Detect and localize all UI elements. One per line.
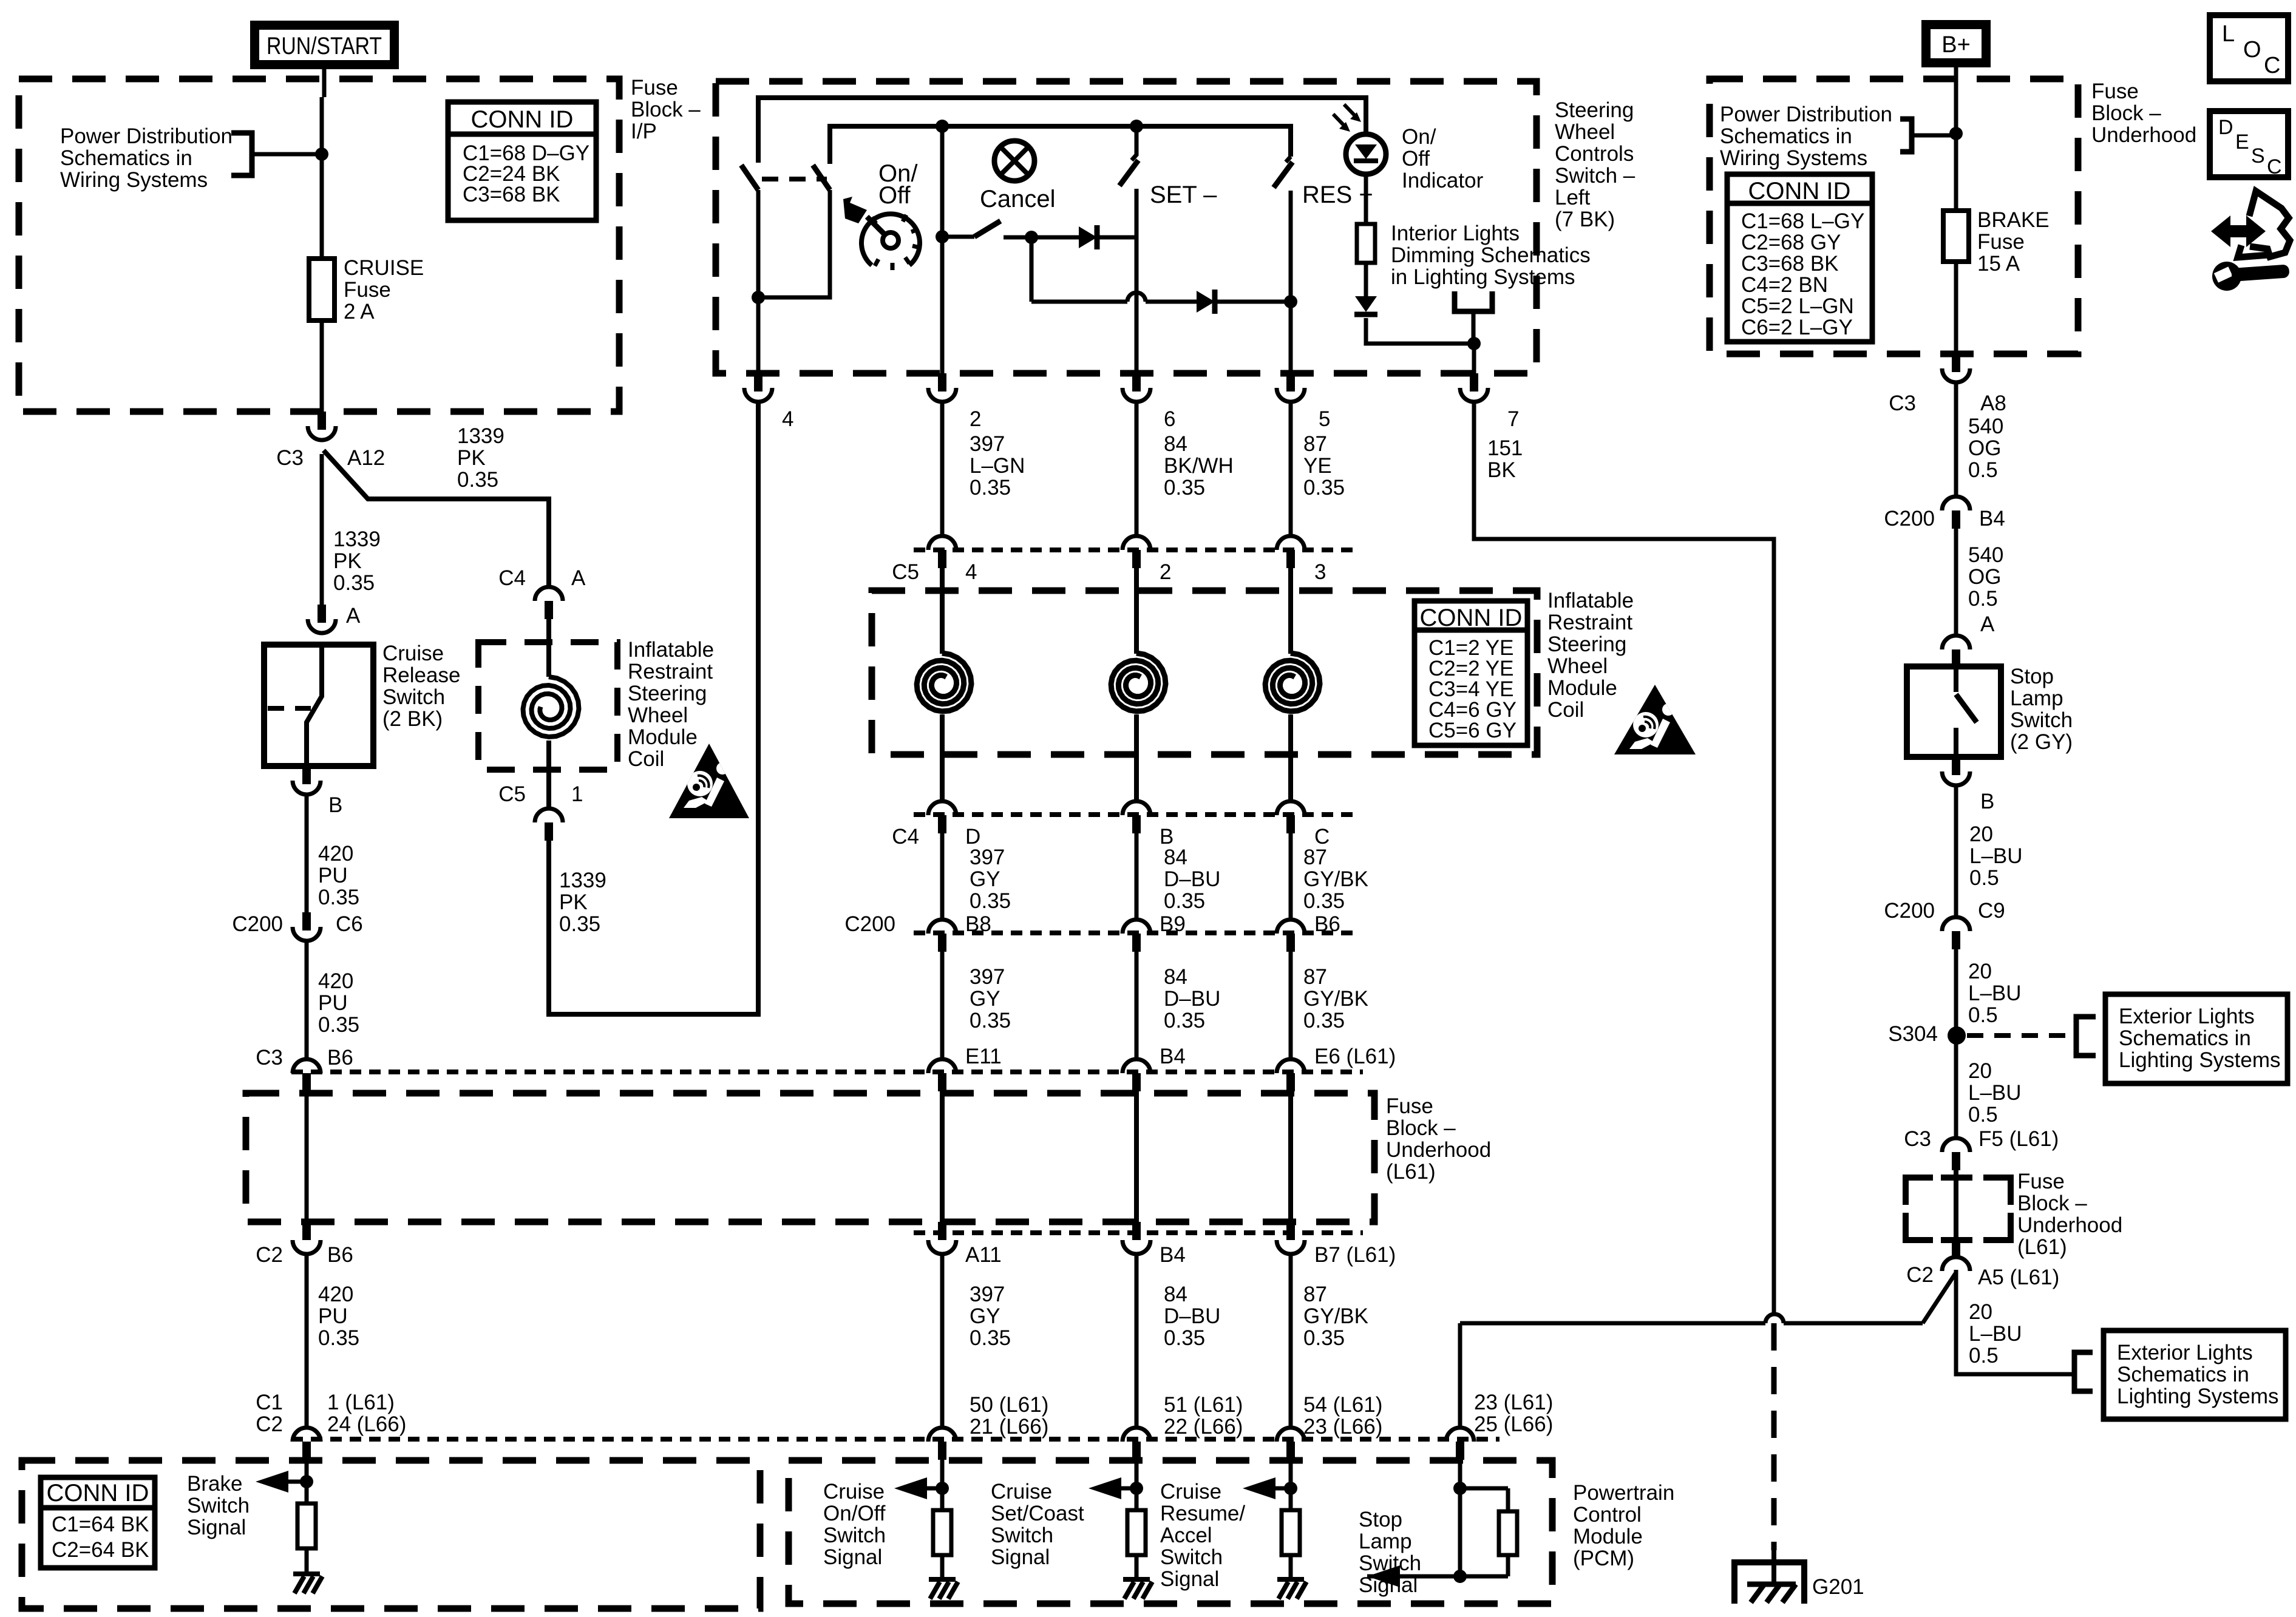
svg-text:0.35: 0.35: [970, 1009, 1011, 1032]
svg-text:24 (L66): 24 (L66): [327, 1412, 406, 1436]
CONN ID table underhood right: [1727, 174, 1872, 342]
wire C6 to C3 B6: [305, 943, 309, 1059]
svg-text:Coil: Coil: [1547, 698, 1584, 722]
svg-text:Module: Module: [1547, 676, 1617, 700]
svg-text:YE: YE: [1303, 454, 1332, 478]
svg-text:54 (L61): 54 (L61): [1303, 1393, 1382, 1417]
svg-text:87: 87: [1303, 1283, 1327, 1306]
svg-text:F5 (L61): F5 (L61): [1978, 1127, 2059, 1151]
brake pedal dashed box: [22, 1460, 760, 1609]
arrow stop lamp signal: [1367, 1565, 1400, 1587]
power label RUN/START: [250, 21, 399, 69]
svg-text:0.5: 0.5: [1968, 1103, 1998, 1127]
svg-text:Lamp: Lamp: [2010, 686, 2063, 710]
svg-text:D: D: [2218, 116, 2233, 139]
svg-text:GY: GY: [970, 987, 1000, 1011]
wire into coil box: [546, 619, 551, 677]
wire coil left out: [940, 714, 945, 801]
svg-text:Fuse: Fuse: [2091, 80, 2139, 103]
LED arrows: [1333, 114, 1347, 129]
svg-text:C3: C3: [1889, 392, 1916, 415]
svg-text:6: 6: [1164, 407, 1175, 431]
ground pcm branch: [940, 1555, 945, 1579]
wires C200 to E11 row: [940, 952, 945, 1059]
junction dot power feed: [315, 147, 328, 161]
stop lamp switch blade: [1954, 668, 1958, 692]
connector C2 A5 L61: [1952, 1243, 1960, 1259]
junction dot res wire: [1284, 295, 1297, 308]
svg-text:B6: B6: [327, 1243, 353, 1267]
svg-text:C2=68 GY: C2=68 GY: [1741, 231, 1841, 254]
svg-text:Interior Lights: Interior Lights: [1391, 222, 1520, 245]
svg-text:20: 20: [1968, 1059, 1992, 1083]
svg-text:On/Off: On/Off: [823, 1502, 886, 1525]
coil dashed box inflatable restraint steering wheel module coil: [478, 642, 617, 770]
wire 1339 down to cruise release switch: [320, 454, 324, 605]
svg-text:C2: C2: [1906, 1263, 1934, 1287]
svg-text:Accel: Accel: [1160, 1524, 1212, 1547]
wire 2 from rail: [936, 120, 949, 133]
wire resistor to diode: [1364, 263, 1368, 296]
icon mouse outline: [2249, 191, 2290, 257]
svg-text:B8: B8: [965, 912, 991, 936]
svg-text:(PCM): (PCM): [1573, 1547, 1634, 1570]
svg-text:0.35: 0.35: [318, 886, 359, 909]
fuse block underhood right dashed box: [1710, 79, 2078, 354]
svg-text:Coil: Coil: [628, 747, 664, 771]
svg-text:0.5: 0.5: [1968, 1003, 1998, 1027]
connector C5 4: [928, 536, 956, 550]
svg-text:Steering: Steering: [1555, 98, 1634, 122]
svg-text:CONN ID: CONN ID: [47, 1480, 149, 1507]
svg-text:Controls: Controls: [1555, 142, 1634, 166]
connector pin 2: [938, 373, 946, 392]
svg-text:3: 3: [1314, 560, 1326, 584]
svg-text:A: A: [1980, 612, 1995, 636]
svg-text:GY: GY: [970, 1304, 1000, 1328]
CONN ID table brake: [41, 1477, 155, 1568]
wire pin2 to C5: [940, 403, 945, 536]
svg-text:0.35: 0.35: [1164, 1326, 1205, 1350]
resistor brake branch: [305, 1482, 309, 1503]
svg-text:(L61): (L61): [2017, 1235, 2067, 1259]
junction dot cancel tap: [936, 230, 949, 243]
svg-text:Block –: Block –: [2091, 101, 2161, 125]
wire resistor to ground: [305, 1547, 309, 1574]
svg-text:Block –: Block –: [1386, 1116, 1456, 1140]
svg-text:Restraint: Restraint: [1547, 611, 1632, 634]
wire on-off to pin 4: [756, 297, 761, 373]
resistor pcm branch: [1289, 1488, 1293, 1510]
svg-text:51 (L61): 51 (L61): [1164, 1393, 1243, 1417]
svg-text:B+: B+: [1941, 32, 1971, 58]
svg-text:Switch: Switch: [187, 1494, 250, 1517]
ground brake branch: [293, 1571, 320, 1576]
wire resume branch with hop: [1031, 300, 1127, 304]
arrow pcm branch: [1243, 1477, 1275, 1499]
svg-text:G201: G201: [1812, 1575, 1864, 1599]
connector C5 3: [1277, 536, 1305, 550]
svg-text:L: L: [2222, 21, 2235, 47]
svg-text:Schematics in: Schematics in: [1720, 124, 1852, 148]
resistor pcm branch: [940, 1488, 945, 1510]
svg-text:Off: Off: [878, 182, 911, 209]
svg-text:(2 BK): (2 BK): [382, 707, 443, 731]
resistor stop lamp branch: [1499, 1511, 1517, 1555]
svg-text:Power Distribution: Power Distribution: [1720, 103, 1892, 126]
connector C3 A12: [318, 412, 326, 430]
svg-text:Cruise: Cruise: [382, 642, 444, 665]
icon wrench: [2212, 262, 2241, 291]
coil right: [1265, 653, 1320, 711]
coil steering wheel module: [523, 677, 579, 737]
svg-text:1: 1: [571, 782, 583, 806]
icon mouse arrow: [2211, 215, 2266, 247]
svg-text:0.5: 0.5: [1968, 587, 1998, 611]
rail common to switches: [830, 126, 1291, 164]
svg-text:0.35: 0.35: [1164, 1009, 1205, 1032]
svg-text:Module: Module: [1573, 1525, 1643, 1548]
svg-text:B6: B6: [1314, 912, 1340, 936]
LED on off indicator: [1346, 134, 1386, 174]
svg-text:Stop: Stop: [1359, 1508, 1402, 1531]
wire coil middle out: [1134, 714, 1139, 801]
svg-text:Lamp: Lamp: [1359, 1530, 1412, 1553]
svg-text:22 (L66): 22 (L66): [1164, 1415, 1243, 1439]
power label B+: [1921, 20, 1991, 67]
coil box dashed three coils: [872, 591, 1537, 754]
wires A11 row to PCM row: [940, 1254, 945, 1428]
svg-text:0.35: 0.35: [318, 1013, 359, 1037]
connector C2 B6: [302, 1222, 311, 1240]
svg-text:Restraint: Restraint: [628, 660, 713, 683]
arrow brake switch signal: [256, 1471, 288, 1493]
wire coil feed to steering switch pin 4: [549, 401, 758, 1014]
svg-text:2: 2: [1160, 560, 1171, 584]
svg-text:Wheel: Wheel: [628, 703, 688, 727]
resistor pcm branch: [1135, 1488, 1139, 1510]
arrow to gauge icon: [843, 197, 867, 223]
svg-text:0.5: 0.5: [1969, 1344, 1999, 1368]
svg-text:Switch: Switch: [382, 685, 445, 709]
svg-text:B: B: [1980, 790, 1994, 813]
svg-text:C4=2 BN: C4=2 BN: [1741, 273, 1828, 297]
connector pin 6: [1132, 373, 1141, 392]
powertrain control module dashed box: [789, 1460, 1552, 1604]
connector B7 L61: [1286, 1222, 1295, 1240]
svg-text:(L61): (L61): [1386, 1160, 1436, 1184]
svg-text:0.35: 0.35: [970, 476, 1011, 500]
connector PCM resume accel: [1277, 1428, 1305, 1442]
wire stop lamp from run: [1458, 1323, 1462, 1428]
fuse block underhood L61 corner box: [1906, 1178, 1933, 1205]
svg-text:B4: B4: [1160, 1243, 1186, 1267]
connector E11: [928, 1059, 956, 1073]
coil middle: [1111, 653, 1166, 711]
wire bracket to B+ wire: [1912, 134, 1956, 138]
svg-text:87: 87: [1303, 432, 1327, 456]
svg-text:Stop: Stop: [2010, 665, 2054, 688]
bracket power distribution right: [1900, 119, 1912, 152]
svg-text:Off: Off: [1402, 147, 1430, 171]
wire diagonal to C2 A5: [1923, 1273, 1955, 1323]
svg-text:0.35: 0.35: [318, 1326, 359, 1350]
svg-text:C5=2 L–GN: C5=2 L–GN: [1741, 294, 1854, 318]
connector B4 lower: [1132, 1222, 1141, 1240]
svg-text:GY/BK: GY/BK: [1303, 987, 1368, 1011]
cancel switch blade: [942, 235, 974, 239]
connector A11: [938, 1222, 946, 1240]
svg-text:C: C: [2264, 53, 2280, 78]
svg-text:0.35: 0.35: [1164, 889, 1205, 913]
connector pin 4: [754, 373, 763, 392]
svg-text:Powertrain: Powertrain: [1573, 1481, 1674, 1505]
svg-text:Schematics in: Schematics in: [2117, 1363, 2249, 1386]
svg-text:23 (L66): 23 (L66): [1303, 1415, 1382, 1439]
svg-text:D–BU: D–BU: [1164, 1304, 1220, 1328]
fuse block underhood dashed box: [246, 1093, 1374, 1222]
svg-text:OG: OG: [1968, 565, 2001, 589]
junction dot pcm branch: [936, 1482, 949, 1495]
svg-text:Exterior Lights: Exterior Lights: [2119, 1005, 2255, 1028]
svg-text:0.5: 0.5: [1969, 866, 1999, 890]
wires C4 to C200: [940, 833, 945, 921]
svg-text:BK: BK: [1487, 458, 1516, 482]
svg-text:87: 87: [1303, 846, 1327, 869]
svg-text:B4: B4: [1160, 1045, 1186, 1068]
svg-text:Schematics in: Schematics in: [2119, 1026, 2251, 1050]
connector C4 C: [1277, 801, 1305, 815]
svg-text:Wiring Systems: Wiring Systems: [60, 168, 208, 192]
svg-text:A: A: [346, 604, 361, 628]
wire C9 to S304: [1954, 949, 1958, 1138]
svg-text:PK: PK: [559, 890, 588, 914]
hop over ground wire: [1765, 1314, 1784, 1323]
svg-text:1 (L61): 1 (L61): [327, 1391, 395, 1414]
connector row line C4: [914, 812, 1354, 817]
svg-text:Signal: Signal: [1160, 1567, 1219, 1591]
svg-text:C5: C5: [498, 782, 526, 806]
svg-text:Cruise: Cruise: [1160, 1480, 1221, 1503]
svg-text:C3: C3: [276, 446, 304, 470]
svg-text:RES +: RES +: [1302, 181, 1373, 208]
svg-text:Fuse: Fuse: [1977, 230, 2025, 254]
svg-text:PU: PU: [318, 991, 348, 1015]
connector C200 C9: [1942, 917, 1970, 931]
svg-text:Fuse: Fuse: [344, 278, 391, 302]
svg-text:7: 7: [1507, 407, 1519, 431]
svg-text:C200: C200: [844, 912, 895, 936]
connector row line C5: [914, 547, 1354, 552]
box Exterior Lights upper: [2105, 994, 2288, 1083]
connector C200 B8: [928, 920, 956, 934]
junction dot B+ power note: [1949, 127, 1963, 140]
svg-text:B4: B4: [1979, 507, 2005, 531]
svg-text:Switch: Switch: [991, 1524, 1053, 1547]
svg-text:PK: PK: [457, 446, 486, 470]
svg-text:CRUISE: CRUISE: [344, 256, 424, 280]
svg-text:C2: C2: [256, 1412, 283, 1436]
lamp cancel: [994, 141, 1034, 181]
svg-text:(2 GY): (2 GY): [2010, 730, 2073, 754]
svg-text:Switch: Switch: [2010, 708, 2073, 732]
svg-text:BRAKE: BRAKE: [1977, 208, 2050, 232]
svg-text:Switch: Switch: [823, 1524, 886, 1547]
junction dot stop lamp bottom: [1453, 1570, 1467, 1583]
connector row line PCM and brake: [291, 1437, 1500, 1442]
svg-text:Underhood: Underhood: [2017, 1213, 2122, 1237]
svg-text:E11: E11: [965, 1045, 1002, 1068]
svg-text:C3=68 BK: C3=68 BK: [463, 183, 560, 206]
svg-text:CONN ID: CONN ID: [1748, 178, 1851, 205]
wire pin5 to C5: [1289, 403, 1293, 536]
svg-text:Cruise: Cruise: [823, 1480, 885, 1503]
cruise release switch linkage dashed: [268, 706, 311, 711]
svg-text:(7 BK): (7 BK): [1555, 208, 1615, 231]
junction dot pcm branch: [1284, 1482, 1297, 1495]
svg-text:C5: C5: [892, 560, 919, 584]
svg-text:B7 (L61): B7 (L61): [1314, 1243, 1396, 1267]
svg-text:397: 397: [970, 432, 1005, 456]
svg-text:87: 87: [1303, 965, 1327, 989]
svg-text:420: 420: [318, 1283, 353, 1306]
svg-text:Fuse: Fuse: [2017, 1170, 2065, 1193]
svg-text:Exterior Lights: Exterior Lights: [2117, 1341, 2253, 1364]
connector B stop lamp switch: [1952, 757, 1960, 775]
svg-text:B9: B9: [1160, 912, 1186, 936]
svg-text:20: 20: [1969, 1300, 1992, 1324]
svg-text:Underhood: Underhood: [2091, 123, 2196, 147]
wire pin5 coil: [1288, 568, 1293, 654]
svg-text:Indicator: Indicator: [1402, 169, 1484, 192]
connector C200 B4: [1942, 497, 1970, 510]
svg-text:B6: B6: [327, 1046, 353, 1070]
svg-text:C5=6 GY: C5=6 GY: [1428, 719, 1517, 742]
wire brake fuse down: [1954, 262, 1958, 354]
arrow pcm branch: [894, 1477, 927, 1499]
svg-text:0.35: 0.35: [559, 912, 600, 936]
svg-text:20: 20: [1968, 960, 1992, 983]
svg-text:21 (L66): 21 (L66): [970, 1415, 1048, 1439]
svg-text:151: 151: [1487, 436, 1523, 460]
wire 1339 branch to A12: [324, 450, 549, 587]
svg-text:0.35: 0.35: [1303, 476, 1345, 500]
svg-text:BK/WH: BK/WH: [1164, 454, 1234, 478]
svg-text:O: O: [2243, 37, 2261, 63]
wire horizontal run stop lamp: [1460, 1321, 1765, 1326]
on-off switch linkage dashed: [762, 177, 827, 181]
svg-text:D–BU: D–BU: [1164, 867, 1220, 891]
wire B4 to stop lamp switch: [1954, 529, 1958, 636]
wire cancel branch down: [1030, 237, 1034, 302]
arrow pcm branch: [1089, 1477, 1121, 1499]
svg-text:Switch –: Switch –: [1555, 164, 1635, 188]
connector PCM set coast: [1123, 1428, 1150, 1442]
svg-text:Release: Release: [382, 663, 460, 687]
svg-text:E: E: [2235, 131, 2249, 154]
svg-text:A8: A8: [1980, 392, 2006, 415]
svg-text:0.35: 0.35: [333, 571, 375, 595]
svg-text:C2: C2: [256, 1243, 283, 1267]
svg-text:Signal: Signal: [823, 1545, 882, 1569]
svg-text:SET –: SET –: [1150, 181, 1217, 208]
svg-text:2: 2: [970, 407, 981, 431]
svg-text:Signal: Signal: [187, 1516, 246, 1539]
wire LED to resistor: [1364, 174, 1368, 224]
wire CRUISE fuse to connector C3: [320, 320, 324, 412]
svg-text:C3=68 BK: C3=68 BK: [1741, 252, 1839, 276]
svg-text:540: 540: [1968, 543, 2003, 567]
LOC box: [2210, 15, 2288, 81]
svg-text:OG: OG: [1968, 436, 2001, 460]
svg-text:Steering: Steering: [1547, 632, 1626, 656]
svg-text:0.35: 0.35: [970, 889, 1011, 913]
svg-text:420: 420: [318, 969, 353, 993]
svg-text:C1=68 L–GY: C1=68 L–GY: [1741, 209, 1864, 233]
wires into PCM: [940, 1460, 945, 1488]
wire into brake box: [305, 1460, 309, 1482]
stub to stop lamp resistor: [1460, 1486, 1508, 1491]
svg-text:Control: Control: [1573, 1503, 1642, 1527]
svg-text:0.35: 0.35: [1303, 1009, 1345, 1032]
svg-text:PU: PU: [318, 1304, 348, 1328]
svg-text:A12: A12: [347, 446, 385, 470]
svg-text:C3: C3: [1904, 1127, 1931, 1151]
fuse CRUISE 2 A: [309, 259, 335, 320]
svg-text:C200: C200: [1884, 507, 1935, 531]
junction dot stop lamp top: [1453, 1482, 1467, 1495]
svg-text:A: A: [571, 566, 586, 590]
connector C5 2: [1123, 536, 1150, 550]
wire pin6 coil: [1134, 568, 1139, 654]
wire coil right out: [1288, 714, 1293, 801]
diode resume branch: [1197, 291, 1215, 313]
svg-text:S: S: [2251, 144, 2265, 168]
junction dot cancel diode branch: [1025, 231, 1038, 244]
ground run dashed to G201: [1771, 1323, 1777, 1550]
stop lamp switch box: [1907, 666, 2001, 757]
on-off switch right pole blade: [813, 165, 830, 190]
svg-text:PU: PU: [318, 864, 348, 887]
svg-text:84: 84: [1164, 965, 1187, 989]
fuse block I/P dashed box: [19, 79, 619, 412]
svg-text:50 (L61): 50 (L61): [970, 1393, 1048, 1417]
svg-text:Underhood: Underhood: [1386, 1138, 1491, 1162]
rail top on-off to LED: [758, 98, 1366, 163]
connector brake switch signal: [293, 1428, 321, 1442]
svg-text:0.35: 0.35: [970, 1326, 1011, 1350]
svg-text:84: 84: [1164, 1283, 1187, 1306]
svg-text:397: 397: [970, 965, 1005, 989]
svg-text:C6=2 L–GY: C6=2 L–GY: [1741, 316, 1853, 339]
wire resistor bottom: [1506, 1555, 1510, 1576]
svg-text:C: C: [2267, 155, 2282, 178]
svg-text:On/: On/: [1402, 125, 1436, 149]
svg-text:Power Distribution: Power Distribution: [60, 124, 233, 148]
resistor interior dimming: [1357, 224, 1375, 263]
wire B down: [1954, 787, 1958, 917]
svg-text:B: B: [328, 793, 342, 817]
connector pin 5: [1286, 373, 1295, 392]
connector C4 B: [1123, 801, 1150, 815]
svg-text:A11: A11: [965, 1243, 1002, 1267]
svg-text:Signal: Signal: [991, 1545, 1050, 1569]
svg-text:0.35: 0.35: [1303, 889, 1345, 913]
svg-text:C1=64 BK: C1=64 BK: [52, 1513, 149, 1536]
svg-text:C3: C3: [256, 1046, 283, 1070]
svg-text:20: 20: [1969, 822, 1993, 846]
svg-text:Schematics in: Schematics in: [60, 146, 192, 170]
